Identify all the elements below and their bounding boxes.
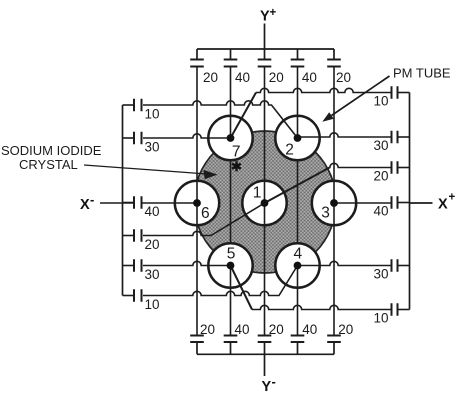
svg-text:40: 40 xyxy=(235,70,250,85)
svg-text:20: 20 xyxy=(373,169,388,184)
node PM tube 3 anode dot xyxy=(330,199,338,207)
svg-text:10: 10 xyxy=(373,311,388,326)
wire right bus stub xyxy=(398,265,410,267)
wire tube1 vertical through xyxy=(264,181,266,225)
wire left bus stub xyxy=(123,235,135,237)
svg-text:10: 10 xyxy=(145,107,160,122)
wire right bus stub xyxy=(398,202,410,204)
wire left bus stub xyxy=(123,104,135,106)
svg-text:X: X xyxy=(80,197,90,213)
wire Y- terminal lead xyxy=(264,354,266,376)
capacitor left X- 30 xyxy=(134,259,142,272)
asterisk mark xyxy=(232,161,241,171)
wire column 1 vertical xyxy=(196,67,198,336)
svg-text:-: - xyxy=(272,374,276,389)
wire column 3 vertical xyxy=(264,67,266,336)
svg-text:4: 4 xyxy=(293,246,302,263)
wire X+ terminal lead xyxy=(410,202,433,204)
capacitor left X- 10 xyxy=(134,99,142,112)
svg-text:20: 20 xyxy=(269,322,284,337)
wire tube4 stub down xyxy=(297,266,299,288)
svg-text:40: 40 xyxy=(302,322,317,337)
wire column 2 vertical xyxy=(230,67,232,336)
svg-text:40: 40 xyxy=(235,322,250,337)
wire diagonal tube1 to X+20 row xyxy=(265,168,330,204)
wire diagonal tube7 to X+10 row xyxy=(231,93,257,139)
svg-text:30: 30 xyxy=(145,267,160,282)
capacitor left X- 30 xyxy=(134,132,142,145)
capacitor bottom Y- col4 xyxy=(291,336,305,343)
wire tube6 vertical through xyxy=(196,181,198,225)
svg-text:-: - xyxy=(90,192,94,207)
svg-text:10: 10 xyxy=(145,297,160,312)
capacitor right X+ 30 xyxy=(392,259,398,272)
wire right bus stub xyxy=(398,167,410,169)
svg-text:1: 1 xyxy=(253,185,262,202)
wire Y+ terminal lead xyxy=(264,24,266,50)
svg-text:PM TUBE: PM TUBE xyxy=(393,66,451,81)
wire top bus stubs xyxy=(197,49,334,60)
wire X- row 20 (to PM tube 1) xyxy=(143,203,265,236)
wire X- row 30b (to PM tube 5) xyxy=(143,261,231,265)
svg-text:7: 7 xyxy=(232,144,241,161)
svg-text:20: 20 xyxy=(200,322,215,337)
wire X- row 30 (to PM tube 7) xyxy=(143,134,231,138)
PM tube 5 circle xyxy=(208,243,252,287)
wire diagonal tube5 to X+10b row xyxy=(231,266,253,310)
wire tube5 stub down xyxy=(230,266,232,288)
svg-text:Y: Y xyxy=(262,379,272,395)
node PM tube 2 anode dot xyxy=(294,134,302,142)
capacitor bottom Y- col2 xyxy=(224,336,238,343)
svg-text:30: 30 xyxy=(373,267,388,282)
svg-text:30: 30 xyxy=(373,138,388,153)
arrow PM TUBE pointer xyxy=(332,76,390,116)
svg-text:5: 5 xyxy=(227,246,236,263)
node PM tube 7 anode dot xyxy=(227,134,235,142)
arrow crystal pointer xyxy=(84,165,207,174)
wire right bus stub xyxy=(398,136,410,138)
capacitor left X- 20 xyxy=(134,229,142,242)
svg-text:10: 10 xyxy=(373,94,388,109)
node PM tube 6 anode dot xyxy=(193,199,201,207)
capacitor right X+ 10 xyxy=(392,86,398,99)
PM tube 2 circle xyxy=(275,116,319,160)
svg-text:20: 20 xyxy=(338,322,353,337)
wire tube2 stub up xyxy=(297,116,299,138)
svg-text:40: 40 xyxy=(302,70,317,85)
svg-text:+: + xyxy=(270,7,277,19)
svg-text:SODIUM IODIDE: SODIUM IODIDE xyxy=(1,143,102,158)
wire X+ row 10b (from PM tube 5) xyxy=(252,305,392,309)
wire left bus stub xyxy=(123,265,135,267)
PM tube 7 circle xyxy=(208,116,252,160)
capacitor right X+ 20 xyxy=(392,161,398,174)
capacitor right X+ 30 xyxy=(392,131,398,144)
svg-text:+: + xyxy=(449,192,456,204)
capacitor top Y+ col3 xyxy=(258,60,272,67)
capacitor top Y+ col1 xyxy=(190,60,204,67)
svg-text:20: 20 xyxy=(203,70,218,85)
svg-text:30: 30 xyxy=(145,140,160,155)
svg-text:CRYSTAL: CRYSTAL xyxy=(19,157,78,172)
svg-text:2: 2 xyxy=(285,142,294,159)
wire right bus stub xyxy=(398,92,410,94)
svg-text:X: X xyxy=(438,197,448,213)
wire left bus stub xyxy=(123,202,135,204)
wire right bus (X+) xyxy=(409,93,411,310)
wire bottom bus stubs xyxy=(197,342,334,354)
PM tube 1 circle xyxy=(242,181,286,225)
node PM tube 5 anode dot xyxy=(227,262,235,270)
wire top bus (Y+) xyxy=(197,48,334,50)
wire tube3 vertical through xyxy=(333,181,335,225)
svg-text:20: 20 xyxy=(145,237,160,252)
capacitor bottom Y- col3 xyxy=(258,336,272,343)
wire X+ row 30 (from PM tube 2) xyxy=(298,133,392,137)
wire X- row 10 (to PM tube 2) xyxy=(143,101,298,138)
capacitor left X- 40 xyxy=(134,196,142,209)
node PM tube 1 anode dot xyxy=(261,199,269,207)
wire right bus stub xyxy=(398,309,410,311)
wire left bus stub xyxy=(123,137,135,139)
capacitor top Y+ col5 xyxy=(327,60,341,67)
capacitor top Y+ col4 xyxy=(291,60,305,67)
svg-text:20: 20 xyxy=(269,70,284,85)
NaI crystal (hatched disc) xyxy=(194,131,336,273)
PM tube 3 circle xyxy=(312,181,356,225)
capacitor left X- 10 xyxy=(134,289,142,302)
wire X- row 10b (to PM tube 4) xyxy=(143,266,298,296)
capacitor right X+ 40 xyxy=(392,196,398,209)
wire X- row 40 cap-to-dot xyxy=(142,202,198,204)
node PM tube 4 anode dot xyxy=(294,262,302,270)
svg-text:6: 6 xyxy=(201,205,210,222)
wire bottom bus (Y-) xyxy=(197,353,334,355)
wire X+ row 40 (from PM tube 3) xyxy=(334,202,392,204)
capacitor bottom Y- col1 xyxy=(190,336,204,343)
svg-text:40: 40 xyxy=(373,204,388,219)
capacitor top Y+ col2 xyxy=(224,60,238,67)
capacitor right X+ 10 xyxy=(392,303,398,316)
wire column 5 vertical xyxy=(333,67,335,336)
wire X+ row 20 (from PM tube 1) xyxy=(330,163,392,167)
wire column 4 vertical xyxy=(297,67,299,336)
wire X+ row 30b (from PM tube 4) xyxy=(298,261,392,265)
wire tube7 stub up xyxy=(230,116,232,138)
svg-text:3: 3 xyxy=(321,205,330,222)
wire X- row 40 (to PM tube 6) xyxy=(100,202,134,204)
svg-text:Y: Y xyxy=(260,9,270,25)
wire X+ row 10 (from PM tube 7) xyxy=(256,88,392,92)
svg-text:20: 20 xyxy=(336,70,351,85)
wire left bus (X-) xyxy=(122,105,124,296)
wire left bus stub xyxy=(123,295,135,297)
PM tube 6 circle xyxy=(175,181,219,225)
PM tube 4 circle xyxy=(275,243,319,287)
capacitor bottom Y- col5 xyxy=(327,336,341,343)
svg-text:40: 40 xyxy=(145,204,160,219)
